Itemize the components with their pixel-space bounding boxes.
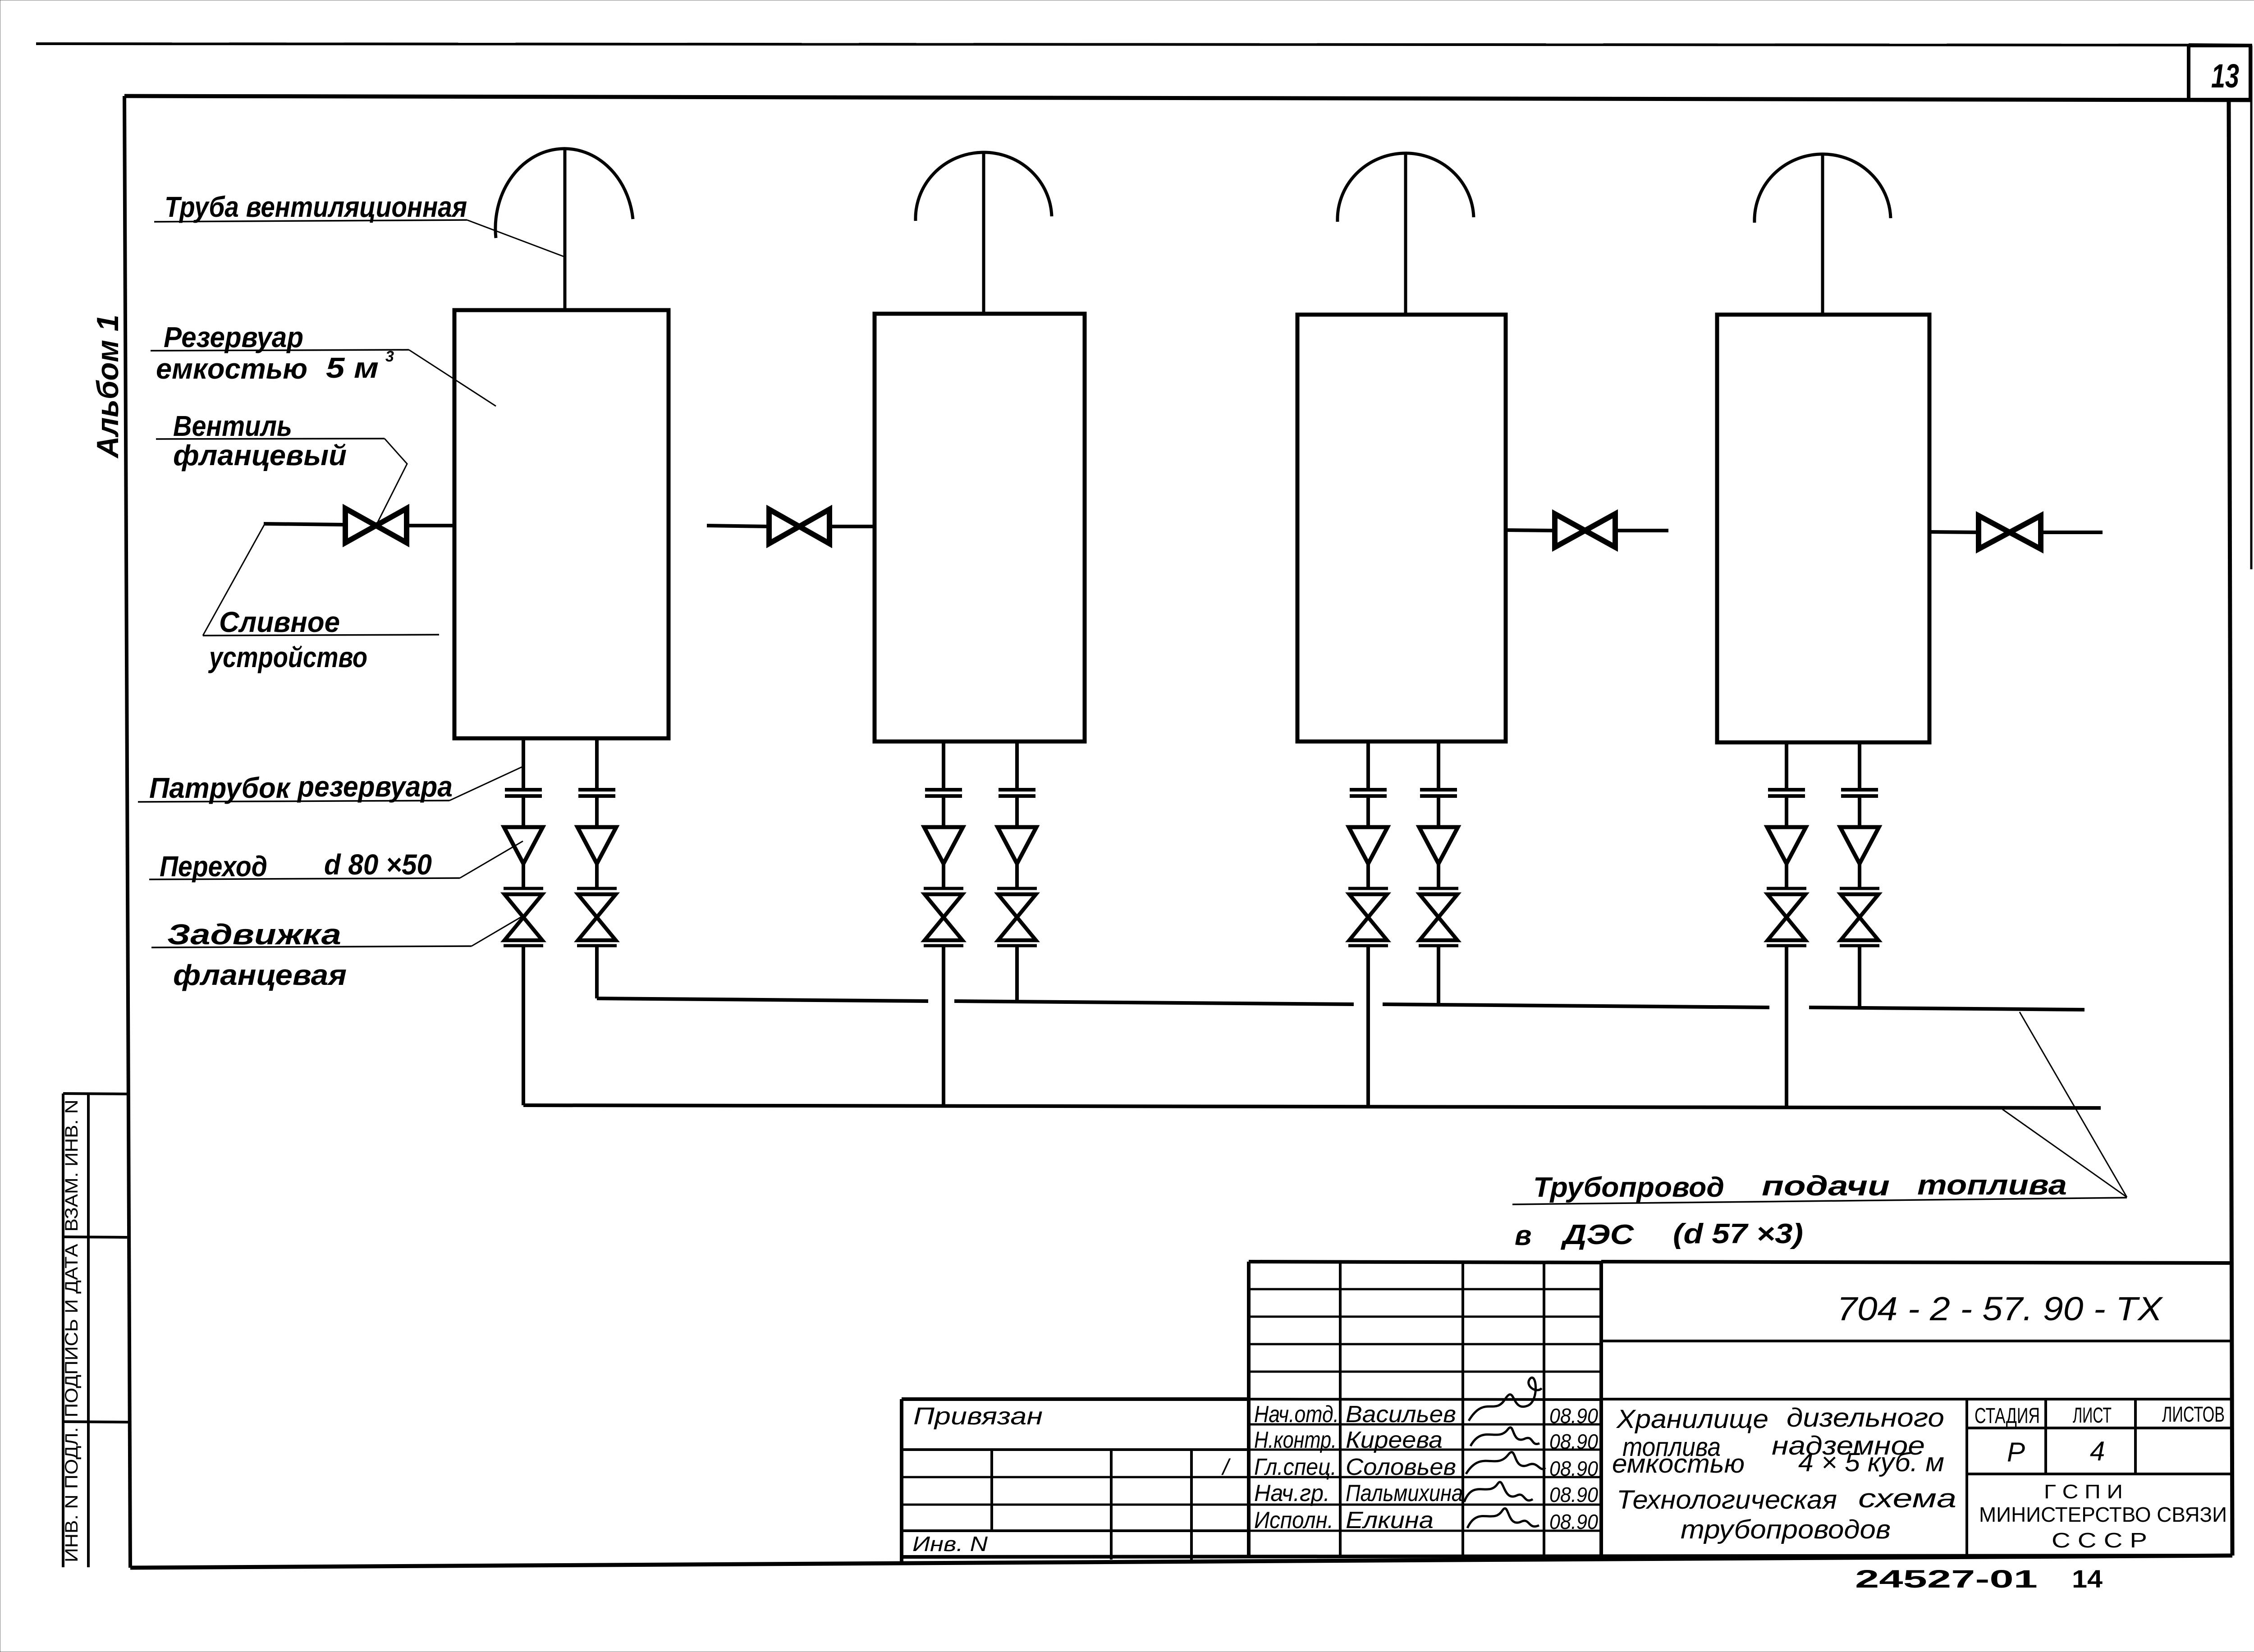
vent cap arc tank 2 bbox=[916, 152, 1052, 221]
left box row line bbox=[902, 1476, 1249, 1478]
vent cap arc tank 1 bbox=[495, 149, 633, 238]
signature row line bbox=[1249, 1476, 1601, 1478]
svg-text:Резервуар: Резервуар bbox=[164, 321, 303, 353]
drop pipe tank 3 left outlet to lower manifold bbox=[1366, 946, 1370, 1107]
svg-text:Н.контр.: Н.контр. bbox=[1254, 1427, 1337, 1453]
left box outer edge bbox=[900, 1399, 903, 1562]
left box divider 3 bbox=[1190, 1450, 1193, 1560]
flange line lower tank 4 right bbox=[1841, 794, 1878, 798]
pipe valve V1 to tank 1 bbox=[407, 524, 454, 527]
drop pipe tank 1 right outlet to upper manifold bbox=[595, 946, 599, 998]
gate valve (zadvizhka flantsevaya) tank 2 right bbox=[998, 894, 1036, 940]
svg-text:емкостью: емкостью bbox=[156, 352, 307, 385]
column line after signature bbox=[1543, 1262, 1545, 1556]
nozzle pipe (patrubok) tank 4 right bbox=[1858, 742, 1861, 790]
left box top edge bbox=[902, 1397, 1249, 1401]
empty revision row line bbox=[1249, 1288, 1601, 1290]
pipe flange to reducer tank 4 left bbox=[1785, 796, 1788, 827]
line under stage values / above GSPI bbox=[1967, 1473, 2231, 1475]
flange line upper tank 3 right bbox=[1420, 788, 1457, 792]
leader to drain pipe end bbox=[203, 523, 265, 636]
leader from lower manifold to label bbox=[2002, 1109, 2127, 1197]
svg-text:13: 13 bbox=[2211, 57, 2239, 95]
svg-text:08.90: 08.90 bbox=[1549, 1510, 1598, 1533]
svg-text:С С С Р: С С С Р bbox=[2052, 1528, 2147, 1552]
pipe reducer to gate valve tank 2 right bbox=[1015, 864, 1019, 888]
svg-text:Г С П И: Г С П И bbox=[2044, 1481, 2123, 1503]
pipe reducer to gate valve tank 4 left bbox=[1785, 864, 1788, 888]
gate valve top flange tank 1 left bbox=[504, 887, 543, 890]
svg-text:Киреева: Киреева bbox=[1346, 1427, 1443, 1453]
svg-text:24527-01: 24527-01 bbox=[1855, 1565, 2038, 1593]
sheet top edge line bbox=[36, 44, 2189, 45]
leader to valve V1 bbox=[376, 439, 407, 526]
left margin boxes column bbox=[62, 1094, 64, 1567]
flange line lower tank 2 left bbox=[925, 794, 962, 798]
vent pipe tank 2 bbox=[982, 153, 985, 314]
left box row line above Inv N bbox=[902, 1529, 1249, 1532]
flanged valve V4 bbox=[1979, 516, 2041, 549]
reducer d80x50 tank 1 right bbox=[577, 827, 616, 864]
leader to gate valve bbox=[472, 916, 523, 946]
pipe flange to reducer tank 3 left bbox=[1366, 796, 1370, 827]
flanged valve V1 (ventil flantsevyi) bbox=[345, 508, 407, 543]
svg-text:08.90: 08.90 bbox=[1549, 1483, 1598, 1506]
nozzle pipe (patrubok) tank 4 left bbox=[1785, 742, 1788, 790]
line under stage header bbox=[1967, 1427, 2231, 1429]
svg-text:ПОДПИСЬ И ДАТА: ПОДПИСЬ И ДАТА bbox=[62, 1244, 82, 1417]
drop pipe tank 4 right outlet to upper manifold bbox=[1858, 946, 1861, 1008]
leader to reducer bbox=[460, 841, 523, 878]
signature squiggle bbox=[1469, 1377, 1542, 1421]
gate valve bottom flange tank 3 left bbox=[1348, 944, 1388, 947]
column line after role bbox=[1339, 1262, 1342, 1556]
flange line upper tank 2 left bbox=[925, 788, 962, 792]
gate valve (zadvizhka flantsevaya) tank 1 left bbox=[504, 894, 542, 940]
lower manifold (fuel supply line) bbox=[523, 1105, 2101, 1108]
reducer d80x50 tank 2 left bbox=[924, 827, 963, 864]
frame right border bbox=[2229, 100, 2232, 1556]
gate valve bottom flange tank 1 left bbox=[504, 944, 543, 947]
svg-text:Альбом 1: Альбом 1 bbox=[91, 315, 125, 459]
pipe flange to reducer tank 2 left bbox=[942, 796, 945, 827]
svg-text:Соловьев: Соловьев bbox=[1346, 1454, 1456, 1480]
stage col divider 1 bbox=[2044, 1399, 2047, 1474]
pipe tank 3 to valve V3 bbox=[1506, 530, 1555, 531]
pipe reducer to gate valve tank 3 left bbox=[1366, 864, 1370, 888]
underline slivnoe bbox=[203, 635, 439, 636]
drop pipe tank 1 left outlet to lower manifold bbox=[522, 946, 525, 1105]
vent cap arc tank 4 bbox=[1755, 154, 1891, 223]
pipe flange to reducer tank 1 right bbox=[595, 796, 599, 827]
svg-text:Хранилище: Хранилище bbox=[1616, 1405, 1768, 1434]
flange line lower tank 3 left bbox=[1350, 794, 1387, 798]
svg-text:СТАДИЯ: СТАДИЯ bbox=[1975, 1404, 2040, 1428]
svg-text:Трубопровод: Трубопровод bbox=[1533, 1172, 1724, 1203]
line above title section bbox=[1601, 1398, 2231, 1400]
svg-text:08.90: 08.90 bbox=[1549, 1404, 1598, 1428]
pipe flange to reducer tank 4 right bbox=[1858, 796, 1861, 827]
title box top edge bbox=[1601, 1262, 2231, 1263]
gate valve top flange tank 3 right bbox=[1419, 887, 1458, 890]
svg-text:Нач.гр.: Нач.гр. bbox=[1254, 1480, 1330, 1506]
line under Privyazan bbox=[902, 1448, 1249, 1451]
frame left border bbox=[124, 96, 130, 1568]
flange line upper tank 1 right bbox=[578, 788, 615, 792]
gate valve (zadvizhka flantsevaya) tank 3 left bbox=[1349, 894, 1387, 940]
leader to nozzle pipe bbox=[449, 766, 523, 801]
empty revision row line bbox=[1249, 1343, 1601, 1345]
signature table left edge bbox=[1247, 1262, 1251, 1556]
underline truba ventilyatsionnaya bbox=[154, 220, 467, 222]
svg-text:08.90: 08.90 bbox=[1549, 1430, 1598, 1453]
flange line upper tank 4 right bbox=[1841, 788, 1878, 792]
svg-text:08.90: 08.90 bbox=[1549, 1457, 1598, 1480]
reducer d80x50 tank 4 left bbox=[1767, 827, 1806, 864]
signature row line bbox=[1249, 1530, 1601, 1532]
stage col divider 2 bbox=[2134, 1399, 2137, 1474]
upper manifold segment bbox=[954, 1001, 1354, 1004]
gate valve bottom flange tank 2 right bbox=[997, 944, 1037, 947]
inlet pipe stub tank 3 bbox=[1616, 529, 1668, 532]
title block bottom edge bbox=[902, 1556, 2231, 1557]
svg-text:ЛИСТ: ЛИСТ bbox=[2073, 1404, 2112, 1428]
flange line upper tank 4 left bbox=[1768, 788, 1805, 792]
left box divider 2 bbox=[1110, 1450, 1113, 1560]
svg-text:ЛИСТОВ: ЛИСТОВ bbox=[2162, 1403, 2225, 1427]
gate valve bottom flange tank 4 left bbox=[1767, 944, 1806, 947]
column line after name bbox=[1461, 1262, 1464, 1556]
gate valve top flange tank 2 left bbox=[924, 887, 963, 890]
flanged valve V2 bbox=[769, 509, 829, 544]
pipe flange to reducer tank 1 left bbox=[522, 796, 525, 827]
flange line upper tank 3 left bbox=[1350, 788, 1387, 792]
svg-text:Р: Р bbox=[2007, 1437, 2025, 1467]
svg-text:фланцевый: фланцевый bbox=[173, 439, 347, 471]
divider between Vzam and Podpis boxes bbox=[63, 1237, 127, 1237]
inlet pipe stub tank 2 bbox=[707, 526, 769, 526]
upper manifold segment bbox=[1383, 1004, 1769, 1007]
svg-text:4 × 5 куб. м: 4 × 5 куб. м bbox=[1798, 1448, 1944, 1477]
gate valve (zadvizhka flantsevaya) tank 3 right bbox=[1420, 894, 1457, 940]
frame top border bbox=[124, 96, 2250, 100]
pipe tank 4 to valve V4 bbox=[1929, 532, 1979, 532]
gate valve top flange tank 4 right bbox=[1840, 887, 1879, 890]
gate valve bottom flange tank 4 right bbox=[1840, 944, 1879, 947]
svg-text:3: 3 bbox=[385, 348, 394, 365]
nozzle pipe (patrubok) tank 2 left bbox=[942, 741, 945, 790]
nozzle pipe (patrubok) tank 3 left bbox=[1366, 741, 1370, 790]
pipe reducer to gate valve tank 1 right bbox=[595, 864, 599, 888]
svg-text:емкостью: емкостью bbox=[1612, 1449, 1745, 1478]
page number box top bbox=[2189, 45, 2251, 46]
tank 4 (reservoir 5 m3) bbox=[1717, 315, 1929, 742]
tank 1 (reservoir 5 m3) bbox=[454, 310, 669, 738]
drop pipe tank 4 left outlet to lower manifold bbox=[1785, 946, 1788, 1107]
pipe reducer to gate valve tank 4 right bbox=[1858, 864, 1861, 888]
vertical between title and stage table bbox=[1965, 1399, 1968, 1556]
upper manifold segment bbox=[597, 998, 928, 1001]
svg-text:Инв. N: Инв. N bbox=[912, 1532, 988, 1556]
signature table top edge bbox=[1249, 1262, 1601, 1263]
pipe reducer to gate valve tank 3 right bbox=[1437, 864, 1440, 888]
signature squiggle bbox=[1464, 1482, 1533, 1502]
reducer d80x50 tank 3 left bbox=[1349, 827, 1388, 864]
nozzle pipe (patrubok) tank 1 left bbox=[522, 738, 525, 790]
svg-text:Сливное: Сливное bbox=[219, 606, 340, 638]
svg-text:трубопроводов: трубопроводов bbox=[1681, 1515, 1891, 1544]
svg-text:14: 14 bbox=[2072, 1565, 2103, 1593]
left box row line bbox=[902, 1504, 1249, 1506]
svg-text:фланцевая: фланцевая bbox=[173, 959, 347, 991]
row line top of Nach.otd. bbox=[1249, 1399, 1601, 1400]
flange line lower tank 4 left bbox=[1768, 794, 1805, 798]
empty revision row line bbox=[1249, 1316, 1601, 1318]
gate valve top flange tank 1 right bbox=[577, 887, 617, 890]
svg-text:Задвижка: Задвижка bbox=[167, 918, 341, 951]
svg-text:резервуара: резервуара bbox=[297, 770, 453, 803]
signature row line bbox=[1249, 1449, 1601, 1451]
drop pipe tank 3 right outlet to upper manifold bbox=[1437, 946, 1440, 1005]
signature row line bbox=[1249, 1504, 1601, 1506]
reducer d80x50 tank 4 right bbox=[1840, 827, 1879, 864]
svg-text:ИНВ. N ПОДЛ.: ИНВ. N ПОДЛ. bbox=[62, 1427, 82, 1562]
tank 2 (reservoir 5 m3) bbox=[875, 314, 1085, 741]
leader from upper manifold to label bbox=[2020, 1012, 2127, 1197]
signature table right / title box left edge bbox=[1599, 1262, 1603, 1556]
drop pipe tank 2 right outlet to upper manifold bbox=[1015, 946, 1019, 1002]
underline ventil bbox=[156, 439, 385, 439]
upper manifold segment bbox=[1809, 1007, 2084, 1010]
svg-text:(d 57 ×3): (d 57 ×3) bbox=[1673, 1218, 1803, 1249]
gate valve bottom flange tank 2 left bbox=[924, 944, 963, 947]
svg-text:подачи: подачи bbox=[1762, 1171, 1890, 1202]
inlet pipe stub tank 4 bbox=[2041, 531, 2103, 534]
pipe reducer to gate valve tank 2 left bbox=[942, 864, 945, 888]
flange line upper tank 1 left bbox=[505, 788, 542, 792]
svg-text:МИНИСТЕРСТВО СВЯЗИ: МИНИСТЕРСТВО СВЯЗИ bbox=[1979, 1503, 2227, 1526]
flange line lower tank 2 right bbox=[999, 794, 1035, 798]
left box divider 1 bbox=[990, 1450, 993, 1531]
svg-text:Гл.спец.: Гл.спец. bbox=[1254, 1454, 1337, 1480]
pipe flange to reducer tank 2 right bbox=[1015, 796, 1019, 827]
leader into tank 1 bbox=[409, 350, 496, 406]
svg-text:Патрубок: Патрубок bbox=[149, 772, 291, 804]
pipe reducer to gate valve tank 1 left bbox=[522, 864, 525, 888]
underline zadvizhka bbox=[151, 946, 472, 947]
gate valve (zadvizhka flantsevaya) tank 4 left bbox=[1768, 894, 1805, 940]
frame bottom border bbox=[130, 1556, 2232, 1568]
flange line lower tank 3 right bbox=[1420, 794, 1457, 798]
svg-text:5 м: 5 м bbox=[326, 352, 379, 384]
signature squiggle bbox=[1466, 1452, 1545, 1474]
svg-text:устройство: устройство bbox=[208, 641, 367, 673]
gate valve bottom flange tank 3 right bbox=[1419, 944, 1458, 947]
gate valve top flange tank 2 right bbox=[997, 887, 1037, 890]
svg-text:Исполн.: Исполн. bbox=[1254, 1507, 1333, 1533]
vent cap arc tank 3 bbox=[1338, 153, 1474, 222]
underline of fuel pipeline label bbox=[1512, 1198, 2127, 1204]
svg-text:ВЗАМ. ИНВ. N: ВЗАМ. ИНВ. N bbox=[62, 1100, 82, 1232]
svg-text:дизельного: дизельного bbox=[1787, 1403, 1944, 1432]
svg-text:4: 4 bbox=[2090, 1436, 2105, 1466]
svg-text:ДЭС: ДЭС bbox=[1560, 1219, 1634, 1250]
gate valve bottom flange tank 1 right bbox=[577, 944, 617, 947]
svg-text:Привязан: Привязан bbox=[913, 1403, 1043, 1430]
gate valve top flange tank 3 left bbox=[1348, 887, 1388, 890]
reducer d80x50 tank 3 right bbox=[1419, 827, 1458, 864]
svg-text:Елкина: Елкина bbox=[1346, 1507, 1434, 1533]
nozzle pipe (patrubok) tank 3 right bbox=[1437, 741, 1440, 790]
nozzle pipe (patrubok) tank 1 right bbox=[595, 738, 599, 790]
svg-text:Технологическая: Технологическая bbox=[1617, 1485, 1837, 1515]
reducer d80x50 tank 1 left bbox=[504, 827, 543, 864]
svg-text:Труба вентиляционная: Труба вентиляционная bbox=[165, 191, 467, 223]
pipe flange to reducer tank 3 right bbox=[1437, 796, 1440, 827]
line under project code bbox=[1601, 1340, 2231, 1342]
svg-text:Нач.отд.: Нач.отд. bbox=[1254, 1401, 1339, 1428]
sheet right edge line (fading) bbox=[2250, 46, 2253, 569]
svg-text:Переход: Переход bbox=[160, 850, 267, 883]
svg-text:Пальмихина: Пальмихина bbox=[1346, 1480, 1463, 1506]
svg-text:топлива: топлива bbox=[1917, 1170, 2067, 1201]
gate valve (zadvizhka flantsevaya) tank 2 left bbox=[925, 894, 962, 940]
tank 3 (reservoir 5 m3) bbox=[1297, 315, 1506, 741]
reducer d80x50 tank 2 right bbox=[998, 827, 1036, 864]
underline patrubok bbox=[138, 801, 449, 802]
page number box '13' bbox=[2189, 46, 2250, 100]
svg-text:Васильев: Васильев bbox=[1346, 1401, 1456, 1428]
signature row line bbox=[1249, 1423, 1601, 1426]
underline rezervuar bbox=[151, 350, 409, 351]
vent pipe tank 3 bbox=[1404, 154, 1407, 315]
leader to vent pipe tank 1 bbox=[467, 220, 565, 257]
pipe valve V2 to tank 2 bbox=[830, 525, 875, 528]
flange line lower tank 1 left bbox=[505, 794, 542, 798]
svg-text:d 80 ×50: d 80 ×50 bbox=[324, 848, 432, 881]
signature squiggle bbox=[1471, 1428, 1539, 1446]
svg-text:в: в bbox=[1515, 1220, 1531, 1251]
drop pipe tank 2 left outlet to lower manifold bbox=[942, 946, 945, 1106]
nozzle pipe (patrubok) tank 2 right bbox=[1015, 741, 1019, 790]
flanged valve V3 bbox=[1555, 514, 1615, 547]
gate valve (zadvizhka flantsevaya) tank 1 right bbox=[578, 894, 616, 940]
signature squiggle bbox=[1467, 1508, 1539, 1528]
empty revision row line bbox=[1249, 1371, 1601, 1373]
underline perekhod bbox=[149, 878, 460, 879]
svg-text:схема: схема bbox=[1858, 1484, 1956, 1513]
svg-text:704 - 2 - 57. 90 - ТХ: 704 - 2 - 57. 90 - ТХ bbox=[1837, 1290, 2163, 1327]
flange line upper tank 2 right bbox=[999, 788, 1035, 792]
svg-text:Вентиль: Вентиль bbox=[173, 410, 292, 442]
divider between Podpis and Inv boxes bbox=[63, 1422, 128, 1422]
inlet pipe stub tank 1 (drain side) bbox=[264, 524, 345, 525]
vent pipe tank 1 bbox=[563, 150, 567, 310]
gate valve top flange tank 4 left bbox=[1767, 887, 1806, 890]
vent pipe tank 4 bbox=[1821, 155, 1824, 315]
flange line lower tank 1 right bbox=[578, 794, 615, 798]
gate valve (zadvizhka flantsevaya) tank 4 right bbox=[1841, 894, 1878, 940]
